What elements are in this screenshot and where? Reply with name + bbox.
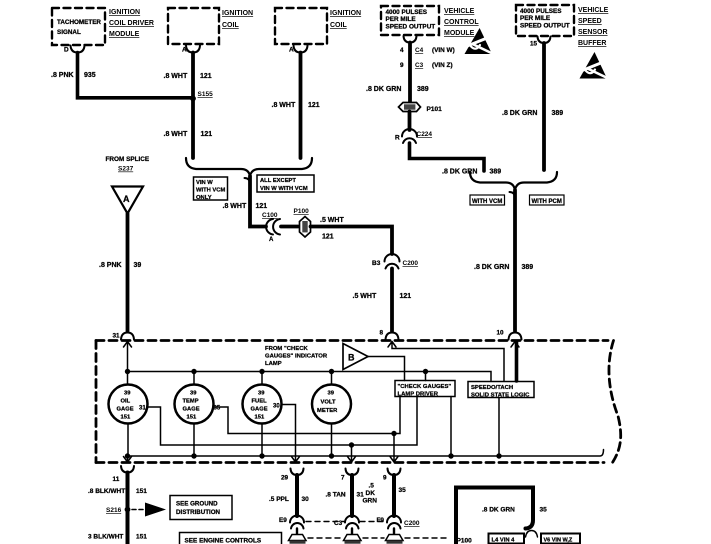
- ESD symbol 2: [580, 52, 610, 79]
- wire .8 DK GRN 389 (VSS buffer): [542, 43, 546, 170]
- svg-text:C4: C4: [415, 47, 424, 54]
- svg-text:10: 10: [497, 330, 505, 337]
- box: check gauges lamp driver: [395, 381, 455, 397]
- svg-text:SENSOR: SENSOR: [578, 29, 608, 36]
- svg-text:VEHICLE: VEHICLE: [444, 8, 475, 15]
- svg-text:D: D: [64, 47, 69, 54]
- svg-text:S237: S237: [118, 166, 134, 173]
- svg-text:DK: DK: [366, 490, 376, 497]
- svg-text:S155: S155: [198, 91, 214, 98]
- pin 10 arrow and thick line to speedo logic: [511, 342, 519, 348]
- component box: vehicle control module (4000 pulses per mile speed output): [381, 6, 439, 35]
- pin 8 arrow and line to speedo logic: [388, 342, 504, 381]
- svg-text:39: 39: [134, 262, 142, 269]
- svg-text:.8 DK GRN: .8 DK GRN: [474, 264, 509, 271]
- svg-text:IGNITION: IGNITION: [330, 10, 361, 17]
- svg-text:.8 WHT: .8 WHT: [223, 203, 247, 210]
- svg-text:E9: E9: [279, 517, 287, 524]
- svg-text:WITH VCM: WITH VCM: [196, 188, 225, 194]
- svg-text:TACHOMETER: TACHOMETER: [57, 19, 101, 26]
- svg-text:.8 PNK: .8 PNK: [51, 72, 74, 79]
- wire from triangle B to lamp driver: [368, 357, 405, 381]
- component box: ignition coil (right): [275, 8, 327, 44]
- svg-text:METER: METER: [317, 408, 338, 414]
- connector P100 (left): [289, 535, 307, 541]
- stubs from bus to gauge tops: [128, 372, 426, 385]
- svg-text:.8 DK GRN: .8 DK GRN: [442, 169, 477, 176]
- wire .8 WHT 121 (left coil): [191, 53, 195, 159]
- svg-text:VIN W WITH VCM: VIN W WITH VCM: [260, 186, 308, 192]
- brace merging DK GRN wires: [470, 172, 557, 190]
- svg-text:MODULE: MODULE: [444, 30, 475, 37]
- svg-text:GAUGES" INDICATOR: GAUGES" INDICATOR: [265, 354, 328, 360]
- ground bus: [128, 450, 604, 457]
- stubs gauge bottoms to ground bus: [128, 424, 332, 457]
- wire .8 PNK 935 from tachometer: [78, 53, 194, 98]
- svg-text:WITH PCM: WITH PCM: [532, 199, 562, 205]
- wire .8 WHT 121 from brace: [245, 178, 251, 184]
- svg-text:SEE GROUND: SEE GROUND: [176, 501, 218, 508]
- svg-text:121: 121: [200, 73, 212, 80]
- instrument cluster dashed box: [96, 339, 608, 342]
- pin 11 arrow: [124, 456, 132, 462]
- box: L4 VIN 4: [489, 534, 525, 544]
- svg-text:151: 151: [136, 488, 147, 495]
- svg-text:935: 935: [84, 72, 96, 79]
- connector P100 (middle): [344, 535, 362, 541]
- svg-text:121: 121: [400, 293, 412, 300]
- svg-text:SPEEDO/TACH: SPEEDO/TACH: [471, 385, 513, 391]
- svg-text:IGNITION: IGNITION: [222, 10, 253, 17]
- splice S155: [190, 96, 196, 102]
- svg-text:R: R: [395, 135, 400, 142]
- svg-text:121: 121: [256, 203, 268, 210]
- brace merging coil wires: [186, 158, 312, 176]
- svg-text:IGNITION: IGNITION: [109, 9, 140, 16]
- wire to C224: [408, 112, 412, 131]
- svg-text:389: 389: [490, 169, 502, 176]
- svg-text:B3: B3: [372, 260, 381, 267]
- svg-text:PER MILE: PER MILE: [520, 15, 551, 22]
- svg-text:39: 39: [258, 391, 265, 397]
- svg-text:39: 39: [190, 391, 197, 397]
- svg-text:.5: .5: [369, 483, 375, 490]
- wire: speedo logic ground leg: [498, 398, 500, 457]
- svg-text:C224: C224: [417, 131, 433, 138]
- svg-text:GRN: GRN: [363, 498, 378, 505]
- svg-text:9: 9: [383, 475, 387, 482]
- svg-text:A: A: [269, 237, 274, 243]
- svg-text:151: 151: [136, 534, 147, 541]
- svg-text:GAGE: GAGE: [117, 407, 134, 413]
- gauge: fuel gage: [243, 385, 282, 424]
- svg-text:389: 389: [522, 264, 534, 271]
- svg-text:121: 121: [201, 131, 213, 138]
- svg-text:GAGE: GAGE: [251, 407, 268, 413]
- triangle A: [112, 187, 143, 214]
- svg-text:11: 11: [113, 476, 120, 483]
- svg-text:P100: P100: [457, 538, 473, 544]
- wire: fuel gage sender to pin 29: [282, 405, 300, 463]
- pin cup VCM: [404, 36, 417, 43]
- box: see engine controls: [180, 533, 282, 544]
- connector P101: [399, 103, 421, 112]
- svg-text:SPEED OUTPUT: SPEED OUTPUT: [386, 24, 436, 31]
- svg-text:COIL: COIL: [222, 22, 239, 29]
- box: WITH PCM: [530, 195, 565, 205]
- svg-text:TEMP: TEMP: [183, 399, 199, 405]
- svg-text:151: 151: [187, 415, 197, 421]
- svg-text:7: 7: [341, 475, 345, 482]
- svg-text:FUEL: FUEL: [252, 399, 268, 405]
- svg-text:(VIN W): (VIN W): [432, 47, 455, 54]
- component box: vehicle speed sensor buffer (4000 pulses per mile speed output): [516, 5, 574, 36]
- svg-text:389: 389: [417, 86, 429, 93]
- box: ALL EXCEPT VIN W WITH VCM: [257, 175, 314, 192]
- svg-text:35: 35: [399, 487, 407, 494]
- pin 31 arrow and feed line: [124, 342, 132, 372]
- svg-text:C200: C200: [403, 260, 419, 267]
- svg-text:LAMP: LAMP: [265, 361, 282, 367]
- svg-text:121: 121: [322, 234, 334, 241]
- box: speedo/tach solid state logic: [468, 382, 534, 398]
- gauge: volt meter: [312, 385, 351, 424]
- svg-text:.5 PPL: .5 PPL: [269, 496, 289, 503]
- svg-text:S216: S216: [106, 507, 122, 514]
- svg-text:SPEED OUTPUT: SPEED OUTPUT: [520, 23, 570, 30]
- svg-text:C200: C200: [404, 520, 420, 527]
- svg-text:LAMP DRIVER: LAMP DRIVER: [398, 392, 439, 398]
- wire .5 WHT 121 to corner: [311, 227, 393, 255]
- svg-text:151: 151: [121, 415, 131, 421]
- svg-text:WITH VCM: WITH VCM: [472, 199, 502, 205]
- component box: ignition coil (left): [168, 8, 219, 44]
- svg-text:VOLT: VOLT: [321, 400, 336, 406]
- gauges feed bus: [128, 372, 492, 381]
- svg-text:.5 WHT: .5 WHT: [353, 293, 377, 300]
- svg-text:3 BLK/WHT: 3 BLK/WHT: [88, 534, 123, 541]
- wire .8 DK GRN 389 to pin 10: [510, 192, 516, 198]
- svg-text:.8 WHT: .8 WHT: [272, 102, 296, 109]
- connector P100 (right): [386, 535, 404, 541]
- box: see ground distribution: [170, 496, 232, 520]
- svg-text:39: 39: [328, 391, 335, 397]
- svg-text:31: 31: [113, 333, 121, 340]
- svg-text:VIN W: VIN W: [196, 180, 213, 186]
- wire elbow to brace (left): [410, 143, 485, 171]
- svg-text:ONLY: ONLY: [196, 195, 212, 201]
- svg-text:C100: C100: [262, 212, 278, 219]
- gauge: temp gage: [175, 385, 214, 424]
- svg-text:.8 DK GRN: .8 DK GRN: [366, 86, 401, 93]
- svg-text:F9: F9: [377, 517, 385, 524]
- svg-text:30: 30: [302, 496, 310, 503]
- svg-text:30: 30: [273, 404, 280, 410]
- svg-text:FROM "CHECK: FROM "CHECK: [265, 346, 308, 352]
- svg-text:L4 VIN 4: L4 VIN 4: [492, 538, 516, 544]
- wire .8 PNK 39 to pin 31: [126, 214, 130, 332]
- svg-text:"CHECK GAUGES": "CHECK GAUGES": [398, 384, 452, 390]
- svg-text:MODULE: MODULE: [109, 31, 140, 38]
- node: bus junction dots: [125, 369, 130, 374]
- gauge: oil gage: [109, 385, 148, 424]
- svg-text:151: 151: [255, 415, 265, 421]
- svg-text:.8 TAN: .8 TAN: [326, 492, 346, 499]
- svg-text:35: 35: [540, 507, 548, 514]
- box: V6 VIN W,Z: [541, 534, 580, 544]
- svg-text:.8 DK GRN: .8 DK GRN: [502, 110, 537, 117]
- svg-text:.5 WHT: .5 WHT: [320, 217, 344, 224]
- svg-text:B: B: [348, 353, 355, 363]
- torn right edge of cluster box: [609, 341, 621, 463]
- svg-text:8: 8: [380, 330, 384, 337]
- svg-text:15: 15: [530, 41, 538, 48]
- svg-text:GAGE: GAGE: [183, 407, 200, 413]
- wire .8 DK GRN 389 (VCM): [408, 43, 412, 103]
- wire segment: [281, 225, 298, 229]
- svg-text:4: 4: [400, 47, 404, 54]
- svg-text:SIGNAL: SIGNAL: [57, 29, 81, 36]
- svg-text:FROM SPLICE: FROM SPLICE: [106, 156, 150, 163]
- component box: tachometer signal (part of ignition coil driver module): [52, 8, 105, 45]
- svg-text:4000 PULSES: 4000 PULSES: [520, 8, 562, 15]
- svg-text:OIL: OIL: [121, 399, 131, 405]
- svg-text:C3: C3: [415, 62, 424, 69]
- svg-text:COIL DRIVER: COIL DRIVER: [109, 20, 154, 27]
- svg-text:SOLID STATE LOGIC: SOLID STATE LOGIC: [471, 393, 530, 399]
- svg-text:121: 121: [308, 102, 320, 109]
- svg-text:.8 PNK: .8 PNK: [99, 262, 122, 269]
- svg-text:389: 389: [552, 110, 564, 117]
- svg-text:SEE ENGINE CONTROLS: SEE ENGINE CONTROLS: [185, 538, 262, 544]
- ESD symbol 1: [465, 28, 495, 55]
- svg-text:CONTROL: CONTROL: [444, 19, 479, 26]
- svg-text:VEHICLE: VEHICLE: [578, 7, 609, 14]
- wire: oil gage sender to lamp driver and pin 7: [148, 397, 418, 446]
- svg-text:P100: P100: [294, 208, 310, 215]
- svg-text:ALL EXCEPT: ALL EXCEPT: [260, 178, 296, 184]
- wire .5 WHT 121 to pin 8: [390, 269, 394, 332]
- svg-text:(VIN Z): (VIN Z): [432, 62, 453, 69]
- svg-text:9: 9: [400, 62, 404, 69]
- svg-text:A: A: [123, 194, 130, 204]
- svg-text:BUFFER: BUFFER: [578, 40, 606, 47]
- svg-text:DISTRIBUTION: DISTRIBUTION: [176, 509, 221, 516]
- svg-text:.8 WHT: .8 WHT: [164, 73, 188, 80]
- svg-text:.8 BLK/WHT: .8 BLK/WHT: [88, 488, 125, 495]
- svg-text:V6 VIN W,Z: V6 VIN W,Z: [544, 538, 573, 544]
- wire .8 WHT 121 (right coil): [299, 53, 303, 159]
- small brace to VIN boxes: [526, 531, 538, 538]
- svg-text:PER MILE: PER MILE: [386, 16, 417, 23]
- box: VIN W WITH VCM ONLY: [194, 177, 228, 200]
- svg-text:C3: C3: [334, 520, 343, 527]
- box: WITH VCM: [470, 195, 505, 205]
- svg-text:.8 DK GRN: .8 DK GRN: [482, 507, 515, 514]
- svg-text:COIL: COIL: [330, 22, 347, 29]
- svg-text:39: 39: [124, 391, 131, 397]
- svg-text:P101: P101: [427, 106, 443, 113]
- wire: temp gage sender to lamp driver and pin 9: [214, 397, 401, 434]
- wire .8 DK GRN 35 (U shape, bottom right): [456, 488, 533, 544]
- svg-text:.8 WHT: .8 WHT: [164, 131, 188, 138]
- svg-text:31: 31: [139, 406, 146, 412]
- wire: lamp driver ground leg: [450, 397, 452, 457]
- svg-text:4000 PULSES: 4000 PULSES: [386, 9, 428, 16]
- svg-text:SPEED: SPEED: [578, 18, 602, 25]
- svg-text:29: 29: [281, 475, 289, 482]
